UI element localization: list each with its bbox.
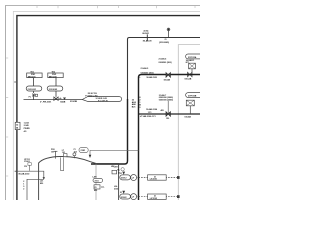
border connector box [15, 122, 20, 129]
svg-text:21023B: 21023B [70, 101, 78, 103]
reducer on line [63, 98, 66, 100]
D2 arrow [122, 191, 125, 194]
svg-text:21: 21 [120, 173, 122, 175]
svg-text:PG: PG [24, 166, 27, 168]
feed line to flag [24, 99, 83, 101]
stadium P1 [186, 54, 203, 59]
pipe A lower (feed into tank sparger) [91, 99, 128, 164]
svg-text:(21G1005): (21G1005) [159, 42, 169, 44]
D2 stadium [120, 194, 131, 199]
tank shell [39, 157, 119, 200]
nozzle N1 [54, 151, 56, 158]
D2 box [148, 194, 167, 199]
frame ruler ticks left [6, 58, 8, 176]
svg-text:850: 850 [94, 190, 97, 192]
svg-text:P. 2 OF 30: P. 2 OF 30 [98, 100, 109, 102]
svg-text:21022: 21022 [121, 197, 127, 199]
arrow into roof [89, 150, 91, 155]
valve on bus2 [166, 73, 170, 78]
drain line [27, 179, 44, 200]
svg-text:150: 150 [166, 118, 169, 120]
dashed signal line D1 [120, 177, 179, 179]
svg-text:PWRD: PWRD [24, 128, 31, 130]
border tick at inlet [15, 170, 18, 172]
svg-text:80-AB-2102: 80-AB-2102 [19, 172, 31, 175]
valve V1 [32, 94, 35, 97]
nozzle N3 [73, 153, 76, 156]
svg-text:2: 2 [23, 188, 24, 190]
D2 instrument circle [131, 194, 137, 200]
svg-text:LIC2101: LIC2101 [150, 179, 157, 181]
D1 end dot [177, 176, 180, 179]
svg-text:2"-AB-2106-1C1: 2"-AB-2106-1C1 [141, 115, 157, 118]
svg-text:21P015A: 21P015A [188, 56, 197, 59]
stadium P2 [186, 93, 203, 98]
svg-text:80-N21: 80-N21 [142, 33, 149, 35]
svg-text:2102: 2102 [114, 188, 118, 190]
D1 stadium [120, 175, 131, 180]
left inlet pipe [18, 171, 44, 178]
drop line col2 [55, 78, 57, 97]
svg-text:50-AB-2105: 50-AB-2105 [147, 76, 157, 79]
dashed signal line D2 [120, 196, 179, 198]
svg-text:0300300 (300): 0300300 (300) [159, 62, 172, 64]
svg-text:LSH: LSH [114, 166, 118, 168]
D2 end dot [177, 195, 180, 198]
roof arrow label [79, 148, 88, 153]
svg-text:50-AB-2106: 50-AB-2106 [146, 108, 158, 111]
drop line col1 [33, 78, 35, 94]
stadium S1 [26, 86, 42, 91]
valve on bus3 [166, 112, 170, 117]
pipe A upper (N2 line) [128, 38, 201, 100]
tank internal cluster C3 [94, 185, 100, 189]
svg-text:2"-FW-2101: 2"-FW-2101 [40, 102, 52, 104]
svg-text:21.406.5: 21.406.5 [159, 57, 168, 60]
bus3 (lower header) [139, 113, 201, 115]
svg-text:21G1002: 21G1002 [49, 89, 58, 91]
svg-text:0300300 (3000): 0300300 (3000) [159, 99, 173, 101]
svg-text:21012: 21012 [121, 178, 127, 180]
valve V2 [54, 97, 58, 100]
svg-text:150-AB: 150-AB [164, 78, 171, 81]
svg-text:150-AB: 150-AB [184, 116, 191, 119]
svg-text:850: 850 [40, 183, 43, 185]
box T1 [27, 73, 42, 78]
light equipment boundary [178, 45, 200, 200]
svg-text:101: 101 [51, 151, 54, 153]
pipe B (mid header down right side) [139, 75, 201, 201]
svg-text:21: 21 [95, 187, 97, 189]
svg-text:21: 21 [165, 39, 167, 41]
svg-text:2.345: 2.345 [24, 124, 30, 127]
outer sheet frame [6, 6, 201, 201]
vent stub on pipe A [168, 31, 170, 38]
thin level line to riser [90, 149, 139, 151]
box under P1 [189, 63, 196, 69]
svg-text:80-AB-09: 80-AB-09 [143, 39, 153, 42]
off-page flag [82, 97, 121, 102]
svg-text:150-AB: 150-AB [184, 78, 191, 81]
nozzle N2 [63, 154, 67, 157]
inline element on pipe A [146, 34, 148, 40]
svg-text:21P015B: 21P015B [188, 96, 197, 98]
svg-text:405: 405 [161, 109, 164, 112]
valve at P1 on bus2 [188, 72, 192, 76]
svg-text:102: 102 [74, 152, 77, 154]
D1 instrument circle [131, 175, 137, 181]
svg-text:LIC2102: LIC2102 [150, 198, 157, 200]
dip tube [61, 157, 64, 170]
border tick [14, 81, 17, 83]
svg-text:AB10241: AB10241 [49, 75, 57, 78]
drawing border (thick) [17, 16, 200, 200]
stadium S2 [47, 86, 63, 91]
svg-text:21.406.5: 21.406.5 [141, 67, 150, 70]
frame ruler ticks top [37, 6, 195, 8]
box T2 [48, 73, 63, 78]
svg-text:21G1001: 21G1001 [28, 89, 37, 91]
inner margin line [13, 11, 200, 200]
svg-text:101: 101 [62, 152, 65, 154]
D1 box [148, 175, 167, 180]
box under P2 [186, 100, 194, 106]
svg-text:AB10231: AB10231 [28, 75, 36, 78]
D1 arrow [122, 172, 125, 175]
svg-text:2101: 2101 [95, 181, 99, 183]
tank internal line [95, 164, 97, 200]
svg-text:1.234: 1.234 [24, 122, 30, 125]
svg-text:50AB: 50AB [60, 101, 66, 104]
